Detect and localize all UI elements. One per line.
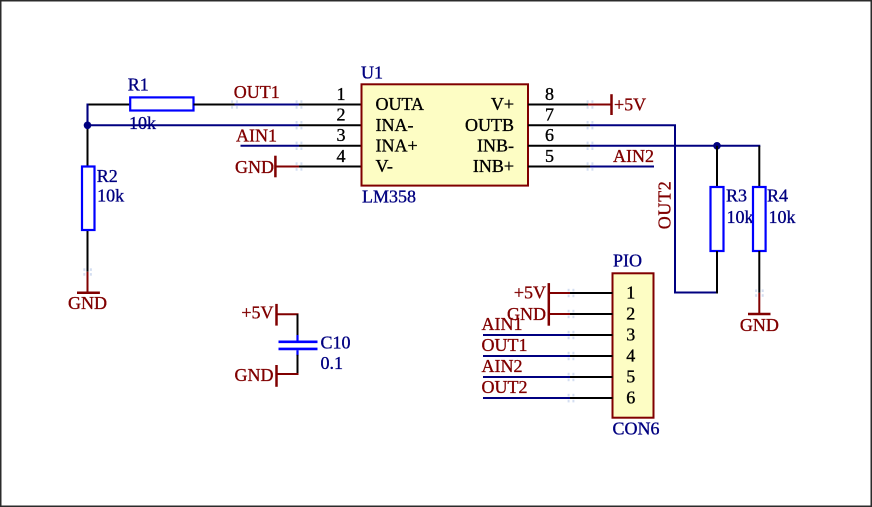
- pin 7 of U1: [528, 124, 590, 126]
- wire: vertical left node to junction (navy): [86, 104, 88, 126]
- wire: node to pin 2 (INA-): [88, 124, 300, 126]
- svg-text:R2: R2: [97, 166, 118, 186]
- svg-text:R1: R1: [128, 75, 149, 95]
- wire: pin 6 to R3/R4 tops: [590, 145, 760, 147]
- wire: R1 right lead: [194, 104, 235, 106]
- wire: OUT2 to R3 bottom: [674, 292, 717, 294]
- resistor R4: [753, 186, 788, 252]
- svg-text:+5V: +5V: [241, 302, 273, 322]
- svg-text:4: 4: [626, 346, 635, 366]
- svg-text:OUT2: OUT2: [655, 181, 675, 230]
- connector PIO body: [613, 250, 660, 438]
- wire: junction down to R2 (black): [87, 125, 89, 168]
- wire: net AIN1 to PIO pin 3: [483, 334, 570, 336]
- wire: net OUT1 segment: [235, 104, 300, 106]
- pin 6 of PIO: [570, 397, 613, 399]
- power port +5V at PIO pin 1: [514, 282, 570, 303]
- svg-text:1: 1: [337, 84, 346, 104]
- svg-text:R3: R3: [726, 186, 747, 206]
- U1 pin names right: [465, 94, 514, 176]
- pin 6 of U1: [528, 145, 590, 147]
- svg-text:5: 5: [545, 146, 554, 166]
- svg-text:+5V: +5V: [514, 282, 546, 302]
- wire: OUT2 net from pin 7: [590, 124, 676, 126]
- resistor R1: [128, 75, 194, 111]
- svg-text:GND: GND: [235, 157, 274, 177]
- wire: R4 top lead: [758, 146, 760, 188]
- svg-text:LM358: LM358: [362, 187, 416, 207]
- svg-text:INB-: INB-: [477, 135, 514, 155]
- PIO pin numbers 1-6: [626, 283, 635, 408]
- wire: R4 bottom lead: [758, 251, 760, 293]
- svg-text:CON6: CON6: [613, 419, 660, 439]
- svg-text:U1: U1: [361, 63, 383, 83]
- wire: net AIN2 segment: [590, 166, 654, 168]
- wire: C10 down to GND: [297, 355, 299, 375]
- svg-text:10k: 10k: [769, 207, 796, 227]
- capacitor C10: [279, 332, 351, 356]
- power port +5V at C10: [241, 302, 298, 325]
- svg-text:OUTB: OUTB: [465, 115, 514, 135]
- pin 5 of PIO: [570, 376, 613, 378]
- svg-text:V-: V-: [376, 156, 393, 176]
- resistor R3: [711, 186, 748, 252]
- wire: net OUT1 to PIO pin 4: [483, 355, 570, 357]
- pin-end markers (faint grid dots): [83, 100, 763, 402]
- svg-text:4: 4: [337, 146, 346, 166]
- svg-text:10k: 10k: [129, 113, 156, 133]
- junction dot at R3: [713, 142, 721, 150]
- svg-text:PIO: PIO: [613, 250, 642, 270]
- U1 pin names left: [376, 94, 425, 176]
- svg-text:OUT1: OUT1: [234, 82, 280, 102]
- svg-text:OUTA: OUTA: [376, 94, 425, 114]
- svg-text:3: 3: [337, 125, 346, 145]
- svg-text:6: 6: [545, 125, 554, 145]
- wire: OUT2 vertical: [674, 125, 676, 293]
- wire: net OUT2 to PIO pin 6: [483, 397, 570, 399]
- power port GND below R4: [740, 293, 779, 335]
- power port GND at pin 4: [235, 156, 299, 178]
- op-amp U1 body: [361, 63, 528, 207]
- pin 4 of PIO: [570, 355, 613, 357]
- svg-text:5: 5: [626, 367, 635, 387]
- wire: R2 bottom lead: [87, 230, 89, 272]
- svg-text:2: 2: [626, 304, 635, 324]
- pin 2 of PIO: [570, 313, 613, 315]
- pin 2 of U1: [299, 124, 362, 126]
- svg-text:INA+: INA+: [376, 135, 418, 155]
- power port GND at C10: [235, 365, 299, 387]
- pin 3 of PIO: [570, 334, 613, 336]
- svg-text:C10: C10: [321, 332, 351, 352]
- node A junction dot: [84, 122, 92, 130]
- pin 5 of U1: [528, 166, 590, 168]
- svg-text:0.1: 0.1: [321, 353, 344, 373]
- svg-text:10k: 10k: [97, 186, 124, 206]
- wire: R3 bottom lead: [716, 251, 718, 294]
- svg-text:+5V: +5V: [614, 94, 646, 114]
- svg-text:10k: 10k: [727, 207, 754, 227]
- svg-text:2: 2: [337, 105, 346, 125]
- svg-text:R4: R4: [767, 186, 788, 206]
- svg-text:3: 3: [626, 325, 635, 345]
- power port GND at PIO pin 2: [507, 304, 570, 326]
- svg-text:8: 8: [545, 84, 554, 104]
- wire: +5V down to C10: [297, 314, 299, 336]
- svg-text:AIN1: AIN1: [236, 126, 277, 146]
- svg-text:GND: GND: [235, 365, 274, 385]
- power port +5V at pin 8: [588, 94, 646, 115]
- svg-text:6: 6: [626, 388, 635, 408]
- svg-text:AIN1: AIN1: [482, 314, 523, 334]
- svg-text:GND: GND: [68, 293, 107, 313]
- pin 3 of U1: [299, 145, 362, 147]
- pin 1 of U1: [299, 104, 362, 106]
- wire: left node to R1 left lead: [87, 104, 132, 106]
- svg-text:AIN2: AIN2: [613, 146, 654, 166]
- resistor R2: [82, 166, 118, 230]
- svg-text:GND: GND: [740, 315, 779, 335]
- svg-text:7: 7: [545, 105, 554, 125]
- wire: net AIN1 segment: [241, 145, 300, 147]
- power port GND below R2: [68, 272, 107, 313]
- pin 8 of U1: [528, 104, 588, 106]
- svg-text:INB+: INB+: [473, 156, 514, 176]
- U1 pin numbers 8-5: [545, 84, 554, 166]
- svg-text:1: 1: [626, 283, 635, 303]
- svg-text:AIN2: AIN2: [482, 356, 523, 376]
- pin 4 of U1: [299, 166, 362, 168]
- wire: R3 top lead: [716, 146, 718, 188]
- svg-text:V+: V+: [491, 94, 514, 114]
- svg-text:OUT1: OUT1: [482, 335, 528, 355]
- pin 1 of PIO: [570, 292, 613, 294]
- svg-text:OUT2: OUT2: [482, 377, 528, 397]
- U1 pin numbers 1-4: [337, 84, 346, 166]
- svg-text:INA-: INA-: [376, 115, 414, 135]
- wire: net AIN2 to PIO pin 5: [483, 376, 570, 378]
